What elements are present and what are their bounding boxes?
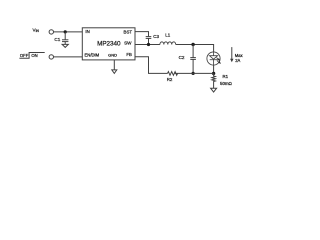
label C1	[54, 37, 60, 42]
label Max	[235, 53, 244, 58]
capacitor C3	[146, 37, 152, 45]
svg-text:EN/DIM: EN/DIM	[85, 53, 100, 58]
wire R2 to output ground node	[175, 72, 214, 74]
terminal VIN	[49, 30, 53, 34]
label R2	[167, 77, 173, 82]
LED D1	[207, 52, 221, 65]
IC U1 MP2340	[82, 28, 135, 60]
junction LED/R1/rail	[212, 72, 215, 75]
ground under GND pin	[112, 70, 117, 74]
label 50mOhm	[220, 81, 233, 86]
junction C2 bottom	[192, 72, 195, 75]
svg-text:L1: L1	[165, 32, 170, 37]
svg-text:R1: R1	[223, 74, 229, 79]
resistor R2	[168, 72, 178, 76]
pin EN/DIM	[85, 53, 100, 58]
svg-text:C2: C2	[179, 55, 185, 60]
wire L1 to LED	[176, 45, 214, 52]
svg-text:ON: ON	[31, 53, 37, 58]
label 2A	[235, 58, 240, 63]
pin FB	[126, 52, 132, 57]
label OFF	[20, 53, 29, 58]
junction SW/C3	[147, 43, 150, 46]
svg-text:SW: SW	[124, 40, 132, 45]
svg-text:C3: C3	[153, 34, 159, 39]
svg-text:BST: BST	[124, 29, 133, 34]
junction output node	[191, 43, 194, 46]
OFF/ON enable waveform	[19, 53, 44, 59]
wire EN to EN/DIM pin	[54, 56, 83, 58]
svg-text:MP2340: MP2340	[97, 40, 121, 47]
node VIN label	[33, 27, 40, 33]
wire VIN to IN pin	[54, 31, 83, 33]
wire LED cathode down	[213, 65, 215, 73]
svg-text:C1: C1	[54, 37, 60, 42]
capacitor C2	[190, 45, 196, 74]
wire FB pin	[135, 57, 168, 74]
pin IN	[85, 29, 89, 34]
label C2	[179, 55, 185, 60]
pin BST	[124, 29, 133, 34]
label L1	[165, 32, 170, 37]
capacitor C1	[62, 32, 68, 45]
terminal EN	[49, 55, 53, 59]
svg-text:VIN: VIN	[33, 27, 40, 33]
svg-text:Max: Max	[235, 53, 244, 58]
pin SW	[124, 40, 132, 45]
svg-text:50mΩ: 50mΩ	[220, 81, 233, 86]
wire BST to C3	[135, 32, 149, 37]
inductor L1	[160, 42, 176, 45]
junction input node	[64, 30, 67, 33]
wire GND pin down	[113, 60, 115, 70]
label R1	[223, 74, 229, 79]
label MP2340	[97, 40, 121, 47]
svg-text:GND: GND	[108, 53, 117, 58]
pin GND	[108, 53, 117, 58]
svg-text:FB: FB	[126, 52, 132, 57]
svg-text:2A: 2A	[235, 58, 240, 63]
wire SW to L1	[135, 44, 160, 46]
label C3	[153, 34, 159, 39]
current annotation arrow Max 2A	[230, 47, 233, 62]
svg-text:R2: R2	[167, 77, 173, 82]
ground under C1	[62, 44, 68, 47]
resistor R1	[212, 73, 216, 88]
svg-text:OFF: OFF	[20, 53, 29, 58]
ground under R1	[211, 88, 217, 92]
label ON	[31, 53, 37, 58]
svg-text:IN: IN	[85, 29, 89, 34]
